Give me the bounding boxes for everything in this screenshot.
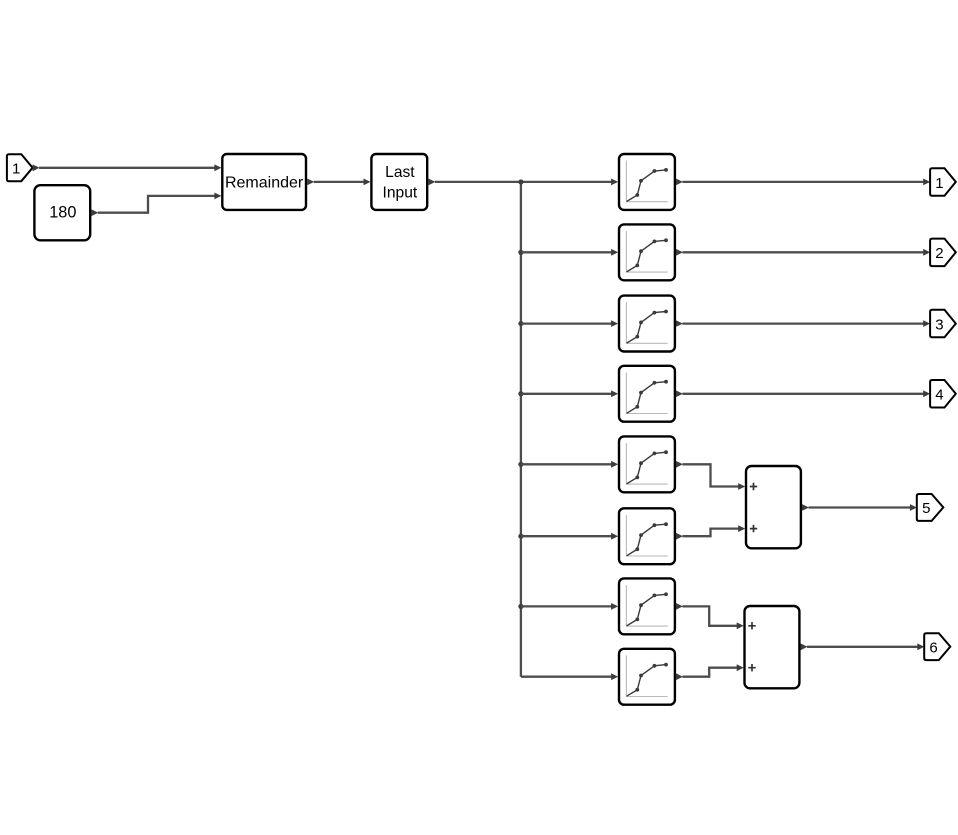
sum block 1 [746,466,801,548]
outport 6 [924,633,950,660]
wire lookup 5 to sum 1 input 1 [676,461,745,490]
wire bus to lookup 8 [521,673,618,680]
wire bus to lookup 4 [521,390,618,397]
wire Remainder to Last Input [307,179,370,186]
svg-text:3: 3 [935,316,943,333]
wire lookup 8 to sum 2 input 2 [676,664,744,680]
wire bus to lookup 3 [521,320,618,327]
wire lookup 4 to outport 4 [676,390,930,397]
wire lookup 7 to sum 2 input 1 [676,603,744,629]
outport 2 [930,239,956,267]
wire inport1 to Remainder input 1 [33,164,222,171]
wire lookup 3 to outport 3 [676,320,930,327]
junction row 6 [518,534,523,539]
constant 180 [34,185,90,240]
lookup table 4 [619,366,675,422]
block Last Input [371,154,427,210]
lookup table 3 [619,296,675,352]
outport 5 [917,494,944,521]
wire sum 1 to outport 5 [802,504,917,511]
wire bus to lookup 6 [521,533,618,540]
wire bus to lookup 5 [521,461,618,468]
outport 4 [930,380,956,408]
lookup table 2 [619,224,675,280]
wire sum 2 to outport 6 [801,643,925,650]
svg-text:Remainder: Remainder [225,175,304,192]
wire Last Input to lookup 1 [428,179,618,186]
inport 1 [7,154,33,181]
lookup table 5 [619,436,675,492]
lookup table 1 [619,154,675,210]
lookup table 7 [619,578,675,634]
outport 1 [930,168,956,196]
svg-text:Last: Last [385,164,415,181]
wire bus to lookup 7 [521,603,618,610]
wire bus to lookup 2 [521,249,618,256]
svg-text:2: 2 [935,245,943,262]
wire lookup 2 to outport 2 [676,249,930,256]
block Remainder [222,154,306,210]
svg-text:1: 1 [12,161,20,178]
junction row 5 [518,462,523,467]
junction row 2 [518,250,523,255]
svg-text:4: 4 [935,387,943,404]
lookup table 8 [619,649,675,705]
vertical bus wire [520,182,522,677]
wire lookup 6 to sum 1 input 2 [676,525,745,539]
svg-text:6: 6 [929,639,937,656]
svg-text:1: 1 [935,175,943,192]
junction row 7 [518,604,523,609]
junction at bus top [518,179,523,184]
outport 3 [930,310,956,338]
svg-text:180: 180 [49,204,76,222]
sum block 2 [745,606,800,688]
wire lookup 1 to outport 1 [676,179,930,186]
lookup table 6 [619,508,675,564]
junction row 3 [518,321,523,326]
svg-text:5: 5 [922,500,930,517]
wire constant 180 to Remainder input 2 [91,193,221,217]
svg-text:Input: Input [383,185,418,202]
junction row 4 [518,391,523,396]
